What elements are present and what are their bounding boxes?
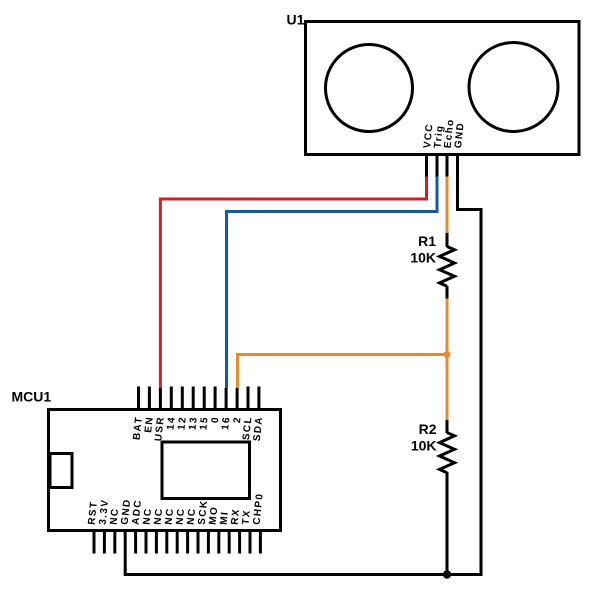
MCU1 inner module box [162,442,250,499]
MCU1 bottom pin 14 stub [228,530,231,554]
MCU1 bottom pin 3 stub [113,530,116,554]
MCU1 top pin SCL [247,387,250,411]
MCU1 bottom pin 17 stub [259,530,262,554]
wire Trig (blue): U1 Trig to MCU1 pin 16 [227,177,438,389]
wire (orange): divider node to MCU1 pin 2 [238,355,448,389]
MCU1 top pin 2 [236,388,239,410]
U1 pin Trig stub [436,154,439,177]
svg-text:2: 2 [232,416,244,424]
wire (orange): R1 bottom to divider node [446,299,449,356]
wire Echo (orange): U1 Echo down to R1 [446,177,449,234]
U1 pin VCC stub [425,154,428,177]
resistor R2 zigzag [440,433,455,473]
resistor R2 leads [446,420,449,433]
resistor R1 leads [446,233,449,247]
wire (orange): divider node down to R2 [446,355,449,421]
U1 left transducer circle [326,45,413,132]
svg-text:R1: R1 [418,233,436,249]
MCU U1 body [49,410,281,531]
U1 right transducer circle [469,43,558,132]
wire VCC (red): U1 VCC to MCU1 pin USR [160,177,426,389]
MCU1 top pin 14 [170,387,173,411]
resistor R1 zigzag [440,247,455,287]
U1 pin Echo stub [446,154,449,177]
MCU1 bottom pin 7 stub [155,530,158,554]
MCU1 top pin 13 [192,387,195,411]
wire ground rail (black): MCU1 GND pin to bottom right [125,530,481,575]
MCU1 bottom pin 11 stub [197,530,200,554]
MCU1 bottom pin 15 stub [238,530,241,554]
MCU1 bottom pin 12 stub [207,530,210,554]
MCU1 top pin 16 [225,388,228,410]
svg-text:15: 15 [198,416,210,431]
node: voltage divider junction (orange dot) [443,351,450,358]
MCU1 top pin 0 [214,387,217,411]
svg-text:MCU1: MCU1 [12,389,52,405]
MCU1 top pin SDA [257,387,260,411]
MCU1 bottom pin 6 stub [145,530,148,554]
MCU1 bottom pin 16 stub [249,530,252,554]
svg-text:10K: 10K [411,438,437,454]
MCU1 bottom pin 10 stub [186,530,189,554]
svg-text:0: 0 [210,416,222,424]
svg-text:10K: 10K [410,250,436,266]
MCU1 bottom pin 8 stub [165,530,168,554]
svg-text:U1: U1 [287,12,305,28]
wire GND (black): U1 GND right and down [458,210,482,577]
MCU1 usb notch [50,454,72,488]
svg-text:R2: R2 [419,421,437,437]
ultrasonic sensor U1 body [306,22,580,155]
wire: R2 bottom lead to ground rail [446,473,449,575]
svg-text:16: 16 [220,416,232,431]
MCU1 top pin USR [159,388,162,410]
MCU1 bottom pin 5 stub [134,530,137,554]
MCU1 bottom pin 2 stub [103,530,106,554]
MCU1 top pin 12 [181,387,184,411]
MCU1 top pin EN [148,387,151,411]
MCU1 bottom pin 1 stub [93,530,96,554]
node: ground rail junction (black dot) [443,570,451,578]
U1 pin GND stub [456,154,459,211]
MCU1 bottom pin 9 stub [176,530,179,554]
MCU1 top pin BAT [137,387,140,411]
MCU1 bottom pin 13 stub [217,530,220,554]
MCU1 top pin 15 [203,387,206,411]
